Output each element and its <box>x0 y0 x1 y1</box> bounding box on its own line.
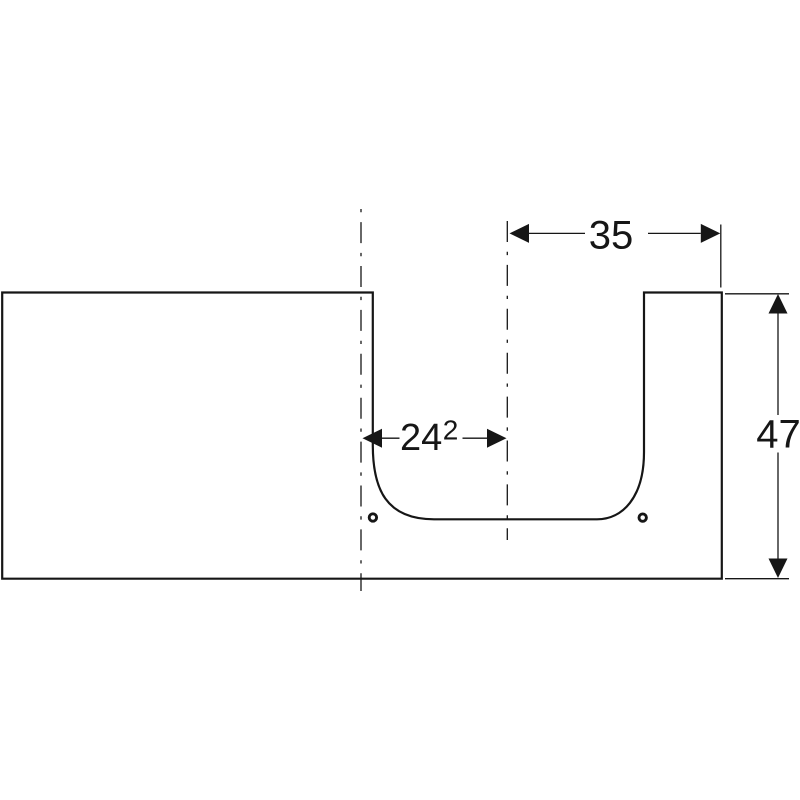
dimension line 47 <box>777 313 779 559</box>
arrowhead 24 right <box>487 429 507 448</box>
fixing hole right <box>639 514 646 521</box>
arrowhead 47 top <box>769 294 788 314</box>
arrowhead 47 bottom <box>769 559 788 579</box>
dimension line 35 <box>529 232 701 234</box>
arrowhead 35 left <box>510 224 530 243</box>
dimension line 24 <box>382 437 488 439</box>
fixing hole left <box>369 514 376 521</box>
centerline left (cutout axis) <box>360 209 362 591</box>
centerline right (tap axis) <box>506 221 508 540</box>
worktop outline with U-shaped basin cutout <box>2 293 722 579</box>
extension line for dim 47 top <box>725 293 789 295</box>
extension line for dim 47 bottom <box>725 578 789 580</box>
svg-text:35: 35 <box>589 213 634 257</box>
svg-text:47: 47 <box>756 413 800 457</box>
svg-text:2: 2 <box>443 415 459 446</box>
arrowhead 24 left <box>363 429 383 448</box>
svg-text:24: 24 <box>400 417 442 459</box>
extension line for dim 35 (right panel edge extended) <box>720 225 722 288</box>
arrowhead 35 right <box>701 224 721 243</box>
